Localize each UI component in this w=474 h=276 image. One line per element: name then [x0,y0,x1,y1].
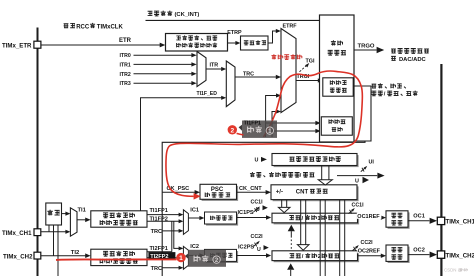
block: 异或 XOR [46,203,62,225]
wire OC1REF [358,217,382,219]
block: 编码器接口 [321,117,352,135]
svg-text:IC1: IC1 [190,207,199,213]
red marker circle 2 [237,133,244,135]
svg-text:IC2PS: IC2PS [238,245,254,251]
red label 触发选择器 [271,54,276,59]
wire TI1 [77,219,86,221]
svg-text:2: 2 [215,257,219,264]
label: 内部时钟(CK_INT) [148,11,153,15]
pin TIMx_CH2 left [34,252,41,259]
svg-text:CC2I: CC2I [361,240,374,246]
right chip boundary line [440,64,442,276]
label: 复位、使能、向上/向下、计数 [372,84,377,88]
svg-text:CC2I: CC2I [251,234,264,240]
mux IC2 [183,246,188,269]
svg-text:TRGO: TRGO [358,43,375,49]
svg-text:ITR2: ITR2 [120,72,131,78]
wire TI2FP2 (highlighted) [147,257,179,259]
wire TI2FP2 riser to trigger mux / encoder [272,112,277,138]
svg-text:CK_CNT: CK_CNT [239,186,262,192]
tooltip 连接2 (dark) [185,254,188,259]
svg-text:1: 1 [268,128,272,135]
mux IC1 [183,210,188,235]
svg-text:CC1I: CC1I [352,202,365,208]
svg-text:ITR: ITR [210,63,219,69]
XOR input verticals [48,225,50,232]
svg-text:ITR3: ITR3 [120,81,131,87]
svg-text:TRC: TRC [151,229,163,235]
svg-text:U: U [255,158,259,164]
wire clock from slave controller [162,141,365,276]
wire IC1 [188,217,200,219]
svg-text:1: 1 [179,255,183,262]
svg-text:PSC: PSC [211,187,224,193]
svg-text:TI2: TI2 [71,250,79,256]
compare up-arrow into CC1 [290,231,292,237]
label: 至其它定时器 / 至DAC/ADC [391,49,396,53]
wire TRC row2 [162,267,179,269]
pin TIMx_CH2 right [437,251,444,258]
red marker circle 1 [176,253,185,262]
wire IC2 [188,254,200,256]
svg-text:TI1F_ED: TI1F_ED [197,91,218,97]
block: 输出控制 (1) [388,212,410,228]
svg-text:(CK_INT): (CK_INT) [175,12,200,18]
svg-text:TIMx_CH2: TIMx_CH2 [3,253,33,260]
hollow bus ARR to CNT [322,166,329,180]
svg-text:TI2FP1: TI2FP1 [150,246,168,252]
svg-text:TIMx_CH2: TIMx_CH2 [446,252,474,259]
block: PSC 预分频器 [202,186,239,201]
svg-text:TGI: TGI [306,58,315,64]
svg-text:TRC: TRC [243,71,254,77]
svg-text:ITR1: ITR1 [120,62,131,68]
block: 输出控制 (2) [388,247,410,263]
wire ETRF [268,31,277,43]
wire TRC row1 [162,230,179,232]
mux TI1 input select [62,213,67,215]
block: trigger controller container [320,15,355,142]
svg-text:ETRF: ETRF [283,24,298,30]
wire TRC to trigger mux [235,76,277,78]
svg-text:U: U [355,179,359,185]
svg-text:OC1: OC1 [413,214,425,220]
svg-text:CNT: CNT [296,189,309,195]
svg-text:ITR0: ITR0 [120,53,131,59]
mux trigger TRGI selector [281,29,296,113]
block: 输入滤波器和边沿检测器 (TI1) [91,211,147,227]
block: 从模式控制器 [323,78,353,96]
svg-text:OC1REF: OC1REF [357,214,380,220]
svg-text:2: 2 [230,127,234,134]
block: CNT 计数器 [273,186,359,201]
svg-text:TIMx_CH1: TIMx_CH1 [2,230,32,237]
svg-text:TIMx_ETR: TIMx_ETR [2,42,32,49]
mux ITR selector [197,52,206,87]
block: 预分频器 (IC2) [206,251,238,263]
wire TRGO [354,49,377,51]
update event arrow right [337,175,377,177]
svg-text:OC2: OC2 [413,247,425,253]
counter buses down [282,200,287,208]
block: 极性选择、边沿检测和预分频器 [166,34,228,52]
tooltip 连接1 (dark) [239,125,242,131]
pin TIMx_ETR [34,41,41,48]
svg-text:RCC: RCC [76,24,90,30]
svg-text:TI1: TI1 [78,207,87,213]
wire TI1FP1 riser to trigger mux / encoder [266,96,277,138]
svg-text:ETR: ETR [119,38,132,44]
svg-text:TI1FP1: TI1FP1 [244,121,261,127]
red arrowhead into PSC [194,193,201,200]
svg-text:U: U [257,247,261,253]
block: 输入滤波器和边沿检测器 (TI2) [91,249,147,265]
cross verticals TI1FP2/TI2FP1 [171,221,173,252]
pin TIMx_CH1 left [34,229,41,236]
block: 输入滤波 [241,36,269,50]
red freehand connection curve [166,71,362,196]
label: 来自RCC的TIMxCLK [64,24,69,28]
svg-text:IC1PS: IC1PS [238,210,254,216]
svg-text:TIMxCLK: TIMxCLK [97,24,124,30]
wire ETR from pin [41,44,161,46]
wire OC2REF [358,255,382,257]
svg-text:TIMx_CH1: TIMx_CH1 [446,219,474,226]
block: 捕获/比较2寄存器 [274,252,360,262]
svg-text:+/-: +/- [276,190,283,196]
left chip boundary line [37,28,39,276]
svg-text:UI: UI [369,159,375,165]
wire ITR [206,68,222,70]
compare up-arrow into CC2 [290,270,292,276]
svg-text:ETRP: ETRP [227,30,242,36]
svg-text:TRC: TRC [151,266,163,272]
block: 预分频器 (IC1) [206,214,238,226]
block: 捕获/比较1寄存器 [274,215,360,225]
svg-text:OC2REF: OC2REF [358,249,381,255]
red strike line TI2FP2 [56,258,177,261]
mux TRC selector [226,61,235,107]
svg-text:DAC/ADC: DAC/ADC [399,57,427,63]
slave mode output bus rectangle [354,86,371,141]
svg-text:IC2: IC2 [190,244,199,250]
block: 自动重装载寄存器 [274,155,359,167]
wire CK_INT [146,19,320,21]
label: 停止、清除或向上/向下 [250,172,255,177]
svg-text:CC1I: CC1I [251,199,264,205]
pin TIMx_CH1 right [437,217,444,224]
svg-text:TI1FP1: TI1FP1 [150,208,168,214]
